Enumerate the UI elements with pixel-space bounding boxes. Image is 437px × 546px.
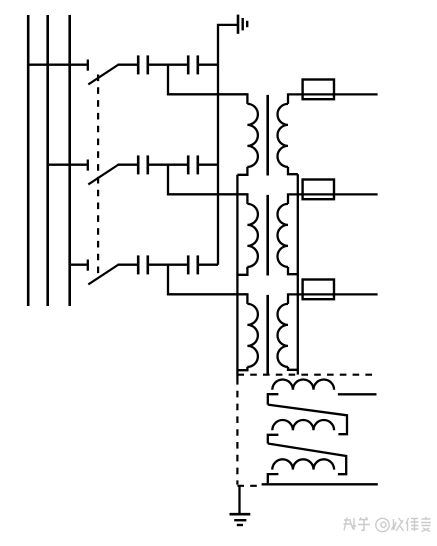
earthing screen dashed separator (237, 374, 377, 376)
transformer TV3 secondary top lead and wire to terminal c (288, 294, 378, 304)
switch QS2 fixed contact (87, 160, 89, 171)
open delta winding W3 (272, 459, 334, 469)
wire row3 from bus L3 (69, 264, 88, 266)
switch QS3 blade (88, 265, 118, 285)
wire row1 blade to C1 (118, 64, 139, 66)
secondary neutral wire (297, 174, 299, 374)
bus bar L1 (27, 15, 30, 306)
winding W1 right terminal lead da (338, 393, 377, 395)
wire row2 C21 to C22 (148, 164, 188, 166)
tap wire row2 to TV2 primary (168, 165, 247, 204)
ground bottom lead (238, 486, 240, 515)
winding W3 output lead dn (262, 483, 378, 485)
transformer TV2 primary bottom lead (237, 267, 247, 275)
wire row1 C11 to C12 (148, 64, 188, 66)
wire row1 from bus L1 (27, 64, 88, 66)
wire row3 blade to C3 (118, 264, 139, 266)
open delta winding W1 (272, 380, 334, 390)
switch QS1 fixed contact (87, 60, 89, 71)
zigzag link W2 to W3 (268, 444, 346, 475)
capacitor C31 (138, 255, 148, 274)
transformer TV2 secondary winding (278, 204, 289, 267)
switch QS3 fixed contact (87, 260, 89, 271)
wire row3 C31 to C32 (148, 264, 188, 266)
fuse FU1 (303, 80, 334, 100)
primary neutral wire (236, 175, 238, 378)
transformer TV2 secondary top lead and wire to terminal b (288, 194, 378, 204)
transformer TV3 secondary bottom lead (288, 367, 298, 370)
transformer TV1 secondary winding (278, 104, 289, 167)
zigzag link W1 to W2 (268, 405, 347, 435)
capacitor C11 (138, 55, 148, 74)
watermark 知乎 @以偶爱 (vector imitation) (344, 517, 432, 532)
wire row2 blade to C2 (118, 164, 139, 166)
capacitor C32 (188, 255, 198, 274)
ground top symbol (238, 15, 247, 34)
transformer TV1 primary bottom lead (237, 167, 247, 175)
wire row2 C22 to ground bus (198, 164, 218, 166)
winding W2 left terminal (268, 435, 279, 444)
capacitor C12 (188, 55, 198, 74)
transformer TV1 secondary top lead and wire to terminal a (288, 94, 378, 104)
capacitor C21 (138, 155, 148, 174)
switch QS2 blade (88, 165, 118, 185)
wire row3 C32 to ground bus (198, 264, 218, 266)
wire row1 C12 to ground bus (198, 64, 218, 66)
tap wire row3 to TV3 primary (168, 265, 247, 304)
switch QS1 blade (88, 65, 118, 85)
dashed link to open delta (237, 485, 259, 487)
winding W3 left terminal (268, 474, 279, 483)
transformer TV3 primary bottom lead (237, 367, 247, 370)
winding W1 left terminal (268, 394, 279, 404)
transformer TV1 primary winding (247, 104, 258, 167)
primary neutral dashed drop (236, 378, 238, 485)
open delta winding W2 (272, 420, 334, 430)
transformer TV1 core (266, 95, 269, 176)
wire row2 from bus L2 (47, 164, 88, 166)
capacitor C22 (188, 155, 198, 174)
transformer TV2 secondary bottom lead (288, 267, 298, 274)
gang linkage dashed (97, 75, 99, 279)
HV ground bus wire (218, 25, 238, 265)
transformer TV1 secondary bottom lead (288, 167, 298, 174)
bus bar L3 (68, 15, 71, 306)
transformer TV2 primary winding (247, 204, 258, 267)
fuse FU2 (303, 180, 334, 200)
transformer TV3 secondary winding (278, 304, 289, 367)
ground bottom symbol (230, 514, 251, 525)
transformer TV3 primary winding (247, 304, 258, 367)
bus bar L2 (46, 15, 49, 306)
transformer TV2 core (266, 195, 269, 276)
tap wire row1 to TV1 primary (168, 65, 247, 104)
transformer TV3 core (266, 295, 269, 374)
fuse FU3 (303, 280, 334, 300)
